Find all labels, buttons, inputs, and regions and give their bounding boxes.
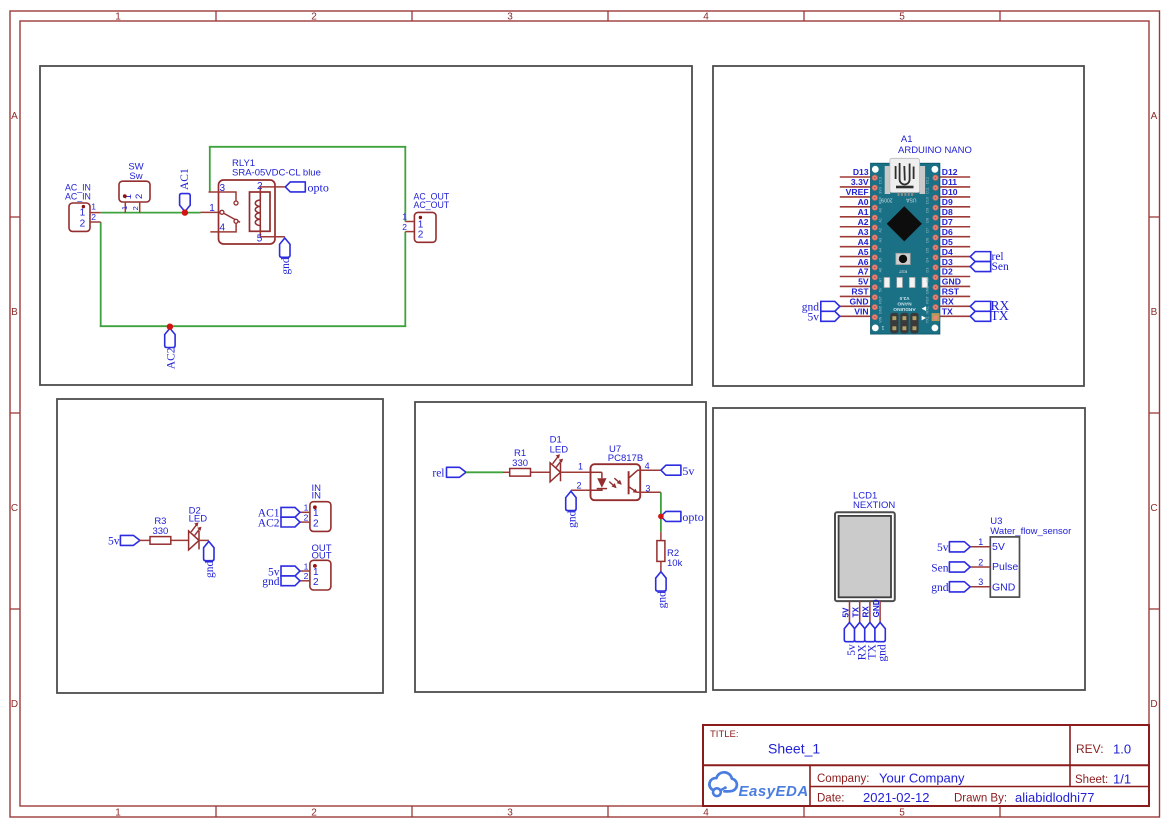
net flag gnd at R2 xyxy=(656,572,669,609)
svg-text:RST: RST xyxy=(851,287,869,297)
svg-text:V3.0: V3.0 xyxy=(899,295,909,301)
wire green top rail xyxy=(209,146,406,148)
svg-text:D13: D13 xyxy=(879,177,883,184)
svg-text:VREF: VREF xyxy=(846,187,869,197)
wire R2 down xyxy=(660,561,662,571)
svg-text:2: 2 xyxy=(978,557,983,567)
svg-text:A3: A3 xyxy=(858,227,869,237)
svg-text:NEXTION: NEXTION xyxy=(853,500,895,511)
title block texts xyxy=(710,729,1131,805)
svg-text:RST: RST xyxy=(879,295,883,303)
svg-text:Sen: Sen xyxy=(992,261,1010,273)
easyeda logo xyxy=(709,772,808,799)
svg-text:Drawn By:: Drawn By: xyxy=(954,793,1007,805)
svg-text:2: 2 xyxy=(304,571,309,581)
svg-text:RST: RST xyxy=(898,269,907,274)
svg-text:1: 1 xyxy=(402,212,407,222)
svg-text:1: 1 xyxy=(881,324,884,330)
svg-text:1: 1 xyxy=(578,462,583,472)
svg-text:2: 2 xyxy=(313,518,319,529)
svg-text:2021-02-12: 2021-02-12 xyxy=(863,790,930,805)
arduino nano board body xyxy=(871,163,940,334)
svg-text:GND: GND xyxy=(992,581,1016,593)
svg-text:TX1: TX1 xyxy=(926,316,930,323)
net flag 5v at U7 pin4 xyxy=(661,464,695,478)
svg-text:1: 1 xyxy=(978,537,983,547)
lcd net flags 5v RX TX gnd xyxy=(844,622,888,661)
svg-text:A3: A3 xyxy=(879,238,883,243)
display LCD1 NEXTION xyxy=(835,490,895,601)
svg-text:AC1: AC1 xyxy=(179,168,191,190)
net flag pair 5v / gnd at OUT xyxy=(262,566,300,588)
svg-text:AC_IN: AC_IN xyxy=(65,191,91,201)
svg-text:A0: A0 xyxy=(879,208,883,213)
svg-text:Sw: Sw xyxy=(129,171,142,182)
svg-text:REF: REF xyxy=(879,196,883,204)
svg-text:D12: D12 xyxy=(926,177,930,184)
svg-text:D11: D11 xyxy=(926,187,930,194)
svg-text:D6: D6 xyxy=(926,238,930,243)
module box: relay power switching xyxy=(40,66,692,385)
svg-text:C: C xyxy=(11,503,18,514)
svg-text:LED: LED xyxy=(550,444,569,455)
svg-text:Date:: Date: xyxy=(817,793,845,805)
svg-text:2: 2 xyxy=(311,12,317,23)
svg-text:TX: TX xyxy=(852,606,861,617)
svg-text:2: 2 xyxy=(304,513,309,523)
svg-text:D2: D2 xyxy=(926,278,930,283)
svg-text:3V3: 3V3 xyxy=(879,187,883,194)
svg-text:AC2: AC2 xyxy=(258,518,280,530)
net flag pair RX / TX at arduino RX,TX xyxy=(970,298,1009,323)
svg-text:Sen: Sen xyxy=(931,562,949,574)
svg-text:ARDUINO: ARDUINO xyxy=(893,306,916,312)
module box: display and sensor xyxy=(713,408,1085,690)
svg-text:A0: A0 xyxy=(858,197,869,207)
net flag rel xyxy=(432,467,466,479)
svg-text:gnd: gnd xyxy=(931,582,949,594)
svg-text:Pulse: Pulse xyxy=(992,561,1018,573)
junction AC2 xyxy=(167,324,173,330)
svg-text:SRA-05VDC-CL blue: SRA-05VDC-CL blue xyxy=(232,168,321,179)
lcd pin labels xyxy=(841,599,881,617)
svg-text:5: 5 xyxy=(899,808,905,819)
arduino leds row xyxy=(884,277,928,287)
svg-text:4: 4 xyxy=(220,222,226,233)
arduino icsp header xyxy=(890,313,918,334)
connector IN xyxy=(300,483,331,531)
net flag opto at junction xyxy=(661,510,704,524)
arduino usb connector xyxy=(885,158,925,196)
svg-text:5V: 5V xyxy=(858,277,869,287)
svg-text:A1: A1 xyxy=(901,134,913,145)
svg-text:D13: D13 xyxy=(853,167,869,177)
svg-text:RX: RX xyxy=(942,297,954,307)
svg-text:A5: A5 xyxy=(879,258,883,263)
svg-text:VIN: VIN xyxy=(854,307,868,317)
connector OUT xyxy=(300,543,332,590)
svg-text:gnd: gnd xyxy=(877,644,889,662)
net flag 5v at U3 pin1 xyxy=(937,542,970,554)
wire green AC_OUT pin2 down xyxy=(404,232,406,327)
svg-text:330: 330 xyxy=(512,458,528,469)
junction AC1 xyxy=(182,209,188,215)
arduino silk ARDUINO NANO V3.0 xyxy=(893,295,916,312)
svg-text:5v: 5v xyxy=(808,312,820,324)
svg-text:D4: D4 xyxy=(926,258,930,263)
wire R1 left pin xyxy=(503,471,510,473)
wire R3 to D2 xyxy=(171,539,189,541)
svg-text:D3: D3 xyxy=(926,268,930,273)
svg-text:A: A xyxy=(11,111,18,122)
wire green U7 pin3 down xyxy=(660,492,662,532)
svg-text:D7: D7 xyxy=(942,217,953,227)
svg-text:2: 2 xyxy=(257,181,263,192)
svg-text:2: 2 xyxy=(80,219,86,230)
svg-text:330: 330 xyxy=(152,526,168,537)
arduino board side silk pin names xyxy=(879,177,930,323)
net flag gnd at U3 pin3 xyxy=(931,582,970,594)
svg-text:TX: TX xyxy=(991,308,1009,323)
wire green rel to R1 xyxy=(466,471,503,473)
svg-text:5v: 5v xyxy=(682,464,694,478)
svg-text:Water_flow_sensor: Water_flow_sensor xyxy=(990,526,1071,537)
svg-text:opto: opto xyxy=(682,510,703,524)
led D2 xyxy=(189,505,208,550)
wire green AC_IN pin1 to relay pin1 xyxy=(101,212,201,214)
svg-text:1: 1 xyxy=(115,808,121,819)
svg-text:GND: GND xyxy=(942,277,961,287)
svg-text:5v: 5v xyxy=(108,535,120,547)
svg-text:3: 3 xyxy=(220,183,226,194)
svg-text:D4: D4 xyxy=(942,247,953,257)
sensor U3 Water_flow_sensor xyxy=(970,516,1071,597)
wire green relay pin3 up xyxy=(209,146,211,192)
svg-text:PC817B: PC817B xyxy=(608,453,643,464)
svg-text:2009: 2009 xyxy=(881,197,892,203)
svg-text:4: 4 xyxy=(703,808,709,819)
svg-text:gnd: gnd xyxy=(280,257,292,275)
arduino mark triangles xyxy=(922,306,926,320)
svg-text:gnd: gnd xyxy=(262,576,280,588)
svg-text:1: 1 xyxy=(91,202,96,212)
svg-text:5: 5 xyxy=(899,12,905,23)
svg-text:GND: GND xyxy=(879,305,883,314)
arduino silk 2009 / USA xyxy=(881,197,916,203)
svg-text:D3: D3 xyxy=(942,257,953,267)
svg-text:RX1: RX1 xyxy=(926,306,930,313)
relay RLY1 xyxy=(201,158,321,245)
svg-text:gnd: gnd xyxy=(656,591,668,609)
svg-text:1: 1 xyxy=(304,561,309,571)
svg-text:D9: D9 xyxy=(942,197,953,207)
svg-text:D6: D6 xyxy=(942,227,953,237)
svg-text:1: 1 xyxy=(304,503,309,513)
svg-text:4: 4 xyxy=(703,12,709,23)
arduino mcu chip diamond xyxy=(887,206,922,241)
svg-text:5V: 5V xyxy=(879,287,883,292)
svg-text:3: 3 xyxy=(507,12,513,23)
svg-text:GND: GND xyxy=(926,285,930,294)
svg-text:rel: rel xyxy=(432,467,444,479)
svg-text:A5: A5 xyxy=(858,247,869,257)
svg-text:2: 2 xyxy=(134,194,145,199)
svg-text:VIN: VIN xyxy=(879,316,883,323)
svg-text:A: A xyxy=(1151,111,1158,122)
net flag AC1 xyxy=(179,168,191,212)
svg-text:GND: GND xyxy=(849,297,868,307)
svg-text:A7: A7 xyxy=(879,278,883,283)
svg-text:opto: opto xyxy=(308,180,329,194)
svg-text:aliabidlodhi77: aliabidlodhi77 xyxy=(1015,790,1095,805)
module box: indicator led xyxy=(57,399,383,693)
resistor R1 330 xyxy=(510,448,531,476)
wire D1 to U7 pin1 xyxy=(561,462,591,473)
svg-text:1.0: 1.0 xyxy=(1113,742,1131,757)
net flag gnd at D2 xyxy=(204,541,217,578)
svg-text:2: 2 xyxy=(311,808,317,819)
wire green AC_IN pin2 down xyxy=(100,222,102,327)
svg-text:D10: D10 xyxy=(926,197,930,204)
svg-text:1/1: 1/1 xyxy=(1113,772,1131,787)
lcd pin wires xyxy=(850,601,881,623)
svg-text:2: 2 xyxy=(418,230,424,241)
arduino nano pin wires right xyxy=(940,177,970,316)
junction opto xyxy=(658,514,664,520)
svg-text:2: 2 xyxy=(402,222,407,232)
svg-text:EasyEDA: EasyEDA xyxy=(739,783,809,800)
svg-text:TITLE:: TITLE: xyxy=(710,729,739,740)
net flag pair rel / Sen at arduino D4,D3 xyxy=(970,251,1009,273)
svg-text:2: 2 xyxy=(91,212,96,222)
svg-text:3.3V: 3.3V xyxy=(851,177,869,187)
svg-text:1: 1 xyxy=(80,208,86,219)
svg-text:A6: A6 xyxy=(858,257,869,267)
svg-text:IN: IN xyxy=(312,491,322,502)
arduino rst button xyxy=(896,253,911,273)
svg-text:A7: A7 xyxy=(858,267,869,277)
svg-text:D9: D9 xyxy=(926,208,930,213)
svg-text:USA: USA xyxy=(906,197,917,203)
svg-text:D: D xyxy=(1150,699,1157,710)
resistor R2 10k xyxy=(657,541,683,569)
svg-text:RST: RST xyxy=(926,295,930,303)
svg-text:A4: A4 xyxy=(858,237,869,247)
svg-text:A4: A4 xyxy=(879,248,883,253)
svg-text:1: 1 xyxy=(209,203,215,214)
wire to R2 xyxy=(660,532,662,541)
svg-text:Sheet_1: Sheet_1 xyxy=(768,741,820,757)
svg-text:4: 4 xyxy=(645,461,650,471)
net flag gnd at U7 pin2 xyxy=(566,491,579,528)
module box: arduino nano xyxy=(713,66,1084,386)
svg-text:5V: 5V xyxy=(992,541,1005,553)
title block grid xyxy=(703,725,1149,806)
svg-text:A2: A2 xyxy=(879,228,883,233)
svg-text:D5: D5 xyxy=(942,237,953,247)
svg-text:D2: D2 xyxy=(942,267,953,277)
wire R3 left xyxy=(140,539,150,541)
svg-text:D7: D7 xyxy=(926,228,930,233)
svg-text:D5: D5 xyxy=(926,248,930,253)
svg-text:3: 3 xyxy=(507,808,513,819)
led D1 xyxy=(550,435,569,482)
svg-text:3: 3 xyxy=(645,483,650,493)
svg-text:D10: D10 xyxy=(942,187,958,197)
svg-text:ARDUINO NANO: ARDUINO NANO xyxy=(898,145,972,156)
svg-text:AC2: AC2 xyxy=(165,347,177,369)
wire green AC_OUT pin1 up xyxy=(404,146,406,222)
arduino silk pin1 mark xyxy=(881,324,884,330)
svg-text:3: 3 xyxy=(978,577,983,587)
svg-text:RX: RX xyxy=(862,606,871,618)
net flag opto at relay pin2 xyxy=(285,180,329,194)
svg-text:REV:: REV: xyxy=(1076,742,1104,756)
svg-text:B: B xyxy=(1151,307,1158,318)
svg-text:2: 2 xyxy=(313,577,319,588)
svg-text:10k: 10k xyxy=(667,558,683,569)
arduino nano pin names left xyxy=(846,167,870,316)
svg-text:A2: A2 xyxy=(858,217,869,227)
net flag 5v at R3 xyxy=(108,535,140,547)
svg-text:AC_OUT: AC_OUT xyxy=(414,200,450,210)
switch SW xyxy=(119,161,150,212)
svg-text:5V: 5V xyxy=(841,607,850,618)
resistor R3 330 xyxy=(150,516,171,544)
svg-text:5v: 5v xyxy=(937,542,949,554)
svg-text:2: 2 xyxy=(131,206,140,210)
optocoupler U7 PC817B xyxy=(571,444,661,500)
svg-text:1: 1 xyxy=(115,12,121,23)
svg-text:5: 5 xyxy=(257,234,263,245)
svg-text:A1: A1 xyxy=(879,218,883,223)
arduino A1 labels xyxy=(898,134,972,156)
svg-text:gnd: gnd xyxy=(204,560,216,578)
net flag pair gnd / 5v at arduino GND,VIN xyxy=(802,301,840,323)
net flag AC2 xyxy=(165,328,178,369)
svg-text:D12: D12 xyxy=(942,167,958,177)
net flag pair AC1 / AC2 at IN xyxy=(258,507,300,529)
wire R1 to D1 xyxy=(531,471,551,473)
net flag gnd at relay pin5 xyxy=(280,238,293,275)
svg-text:Your Company: Your Company xyxy=(879,771,965,786)
svg-text:Sheet:: Sheet: xyxy=(1075,774,1108,786)
svg-text:D11: D11 xyxy=(942,177,958,187)
svg-text:TX: TX xyxy=(942,307,953,317)
svg-text:A1: A1 xyxy=(858,207,869,217)
arduino nano pin wires left xyxy=(840,177,871,316)
svg-text:2: 2 xyxy=(576,481,581,491)
svg-text:NANO: NANO xyxy=(897,300,911,306)
svg-text:Company:: Company: xyxy=(817,773,869,785)
net flag Sen at U3 pin2 xyxy=(931,562,970,574)
svg-text:1: 1 xyxy=(120,206,129,210)
connector AC_OUT xyxy=(402,191,450,242)
svg-text:D8: D8 xyxy=(926,218,930,223)
connector AC_IN xyxy=(65,183,101,232)
svg-text:D: D xyxy=(11,699,18,710)
svg-text:B: B xyxy=(11,307,18,318)
svg-text:D8: D8 xyxy=(942,207,953,217)
svg-text:GND: GND xyxy=(872,599,881,617)
wire green bottom rail xyxy=(100,325,406,327)
svg-text:RST: RST xyxy=(942,287,960,297)
svg-text:A6: A6 xyxy=(879,268,883,273)
svg-text:C: C xyxy=(1150,503,1157,514)
svg-text:gnd: gnd xyxy=(566,510,578,527)
module box: optocoupler xyxy=(415,402,706,692)
wire D2 to gnd xyxy=(199,539,209,541)
arduino nano pin names right xyxy=(942,167,961,316)
